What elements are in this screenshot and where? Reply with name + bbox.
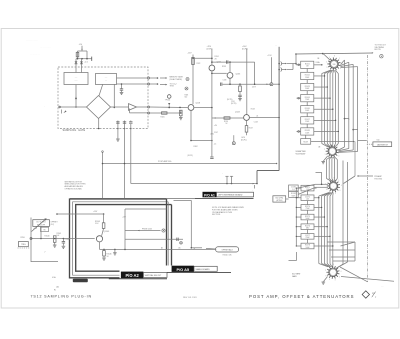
svg-text:1-3: 1-3 bbox=[292, 189, 294, 191]
svg-text:TRIG SIG: TRIG SIG bbox=[374, 179, 382, 181]
svg-text:R122: R122 bbox=[197, 63, 201, 65]
svg-text:P/O A1: P/O A1 bbox=[204, 193, 215, 197]
svg-text:R1541: R1541 bbox=[57, 233, 62, 235]
svg-text:R6: R6 bbox=[43, 229, 45, 231]
svg-text:Q1543: Q1543 bbox=[104, 231, 110, 233]
svg-text:BD PIN: BD PIN bbox=[375, 49, 382, 51]
svg-text:SAMPLING GATE: SAMPLING GATE bbox=[63, 129, 86, 132]
svg-text:FROM 1234: FROM 1234 bbox=[142, 228, 152, 230]
svg-text:........ .....: ........ ..... bbox=[26, 38, 38, 42]
svg-text:-15: -15 bbox=[214, 144, 217, 146]
svg-text:7S12 SAMPLING PLUG-IN: 7S12 SAMPLING PLUG-IN bbox=[31, 295, 92, 299]
svg-text:LEFT INTERFACE BOARD: LEFT INTERFACE BOARD bbox=[218, 194, 243, 197]
svg-text:A1: A1 bbox=[57, 285, 59, 288]
svg-text:R250: R250 bbox=[21, 237, 25, 239]
svg-text:POST AMP SIG: POST AMP SIG bbox=[158, 160, 172, 163]
svg-text:X10 CTRL: X10 CTRL bbox=[275, 198, 283, 200]
svg-text:0: 0 bbox=[338, 155, 339, 157]
svg-text:.01: .01 bbox=[256, 115, 258, 117]
svg-text:R147: R147 bbox=[249, 127, 253, 129]
svg-text:TRIG: TRIG bbox=[170, 86, 175, 88]
svg-text:CAM SWITCH: CAM SWITCH bbox=[377, 143, 389, 146]
svg-text:REV JUL 1981: REV JUL 1981 bbox=[183, 297, 198, 299]
svg-text:510: 510 bbox=[185, 97, 188, 99]
svg-text:2: 2 bbox=[324, 149, 325, 151]
svg-text:R1582: R1582 bbox=[291, 193, 296, 195]
svg-text:R133: R133 bbox=[222, 66, 226, 68]
svg-text:OFFSET ADJ: OFFSET ADJ bbox=[222, 249, 233, 252]
svg-text:S10 ATTEN: S10 ATTEN bbox=[296, 150, 306, 153]
svg-text:C1582: C1582 bbox=[291, 187, 296, 189]
svg-text:C147: C147 bbox=[214, 132, 218, 134]
svg-text:SECTION.: SECTION. bbox=[212, 214, 221, 216]
svg-text:(DCPL): (DCPL) bbox=[241, 140, 247, 142]
svg-text:R1540: R1540 bbox=[45, 236, 50, 238]
svg-text:Q143: Q143 bbox=[235, 112, 240, 114]
svg-text:+4.6: +4.6 bbox=[84, 61, 88, 63]
svg-text:Q133: Q133 bbox=[236, 73, 241, 75]
svg-text:Q118: Q118 bbox=[196, 103, 200, 105]
svg-text:(DCPL): (DCPL) bbox=[231, 103, 237, 105]
svg-text:1M2: 1M2 bbox=[306, 228, 309, 230]
svg-text:3: 3 bbox=[335, 280, 336, 282]
svg-text:(DUAL TRACE): (DUAL TRACE) bbox=[170, 78, 183, 81]
svg-text:... .... ....: ... .... .... bbox=[40, 45, 51, 49]
svg-text:R136: R136 bbox=[224, 121, 228, 123]
svg-text:P/O A5: P/O A5 bbox=[176, 267, 189, 272]
svg-text:R1019: R1019 bbox=[303, 142, 308, 144]
svg-text:.. ...... ..: .. ...... .. bbox=[30, 52, 40, 56]
svg-text:VOLTS/DIV: VOLTS/DIV bbox=[296, 153, 306, 155]
svg-text:.001: .001 bbox=[306, 199, 309, 201]
svg-text:2: 2 bbox=[326, 62, 327, 64]
svg-text:C1541: C1541 bbox=[65, 239, 70, 241]
svg-text:S10: S10 bbox=[333, 64, 336, 66]
svg-text:(DCPL): (DCPL) bbox=[188, 155, 194, 157]
svg-text:SMALL BOARD: SMALL BOARD bbox=[196, 268, 211, 271]
svg-text:R162: R162 bbox=[194, 146, 198, 148]
svg-text:(DC): (DC) bbox=[51, 224, 55, 226]
svg-text:TP104: TP104 bbox=[165, 100, 170, 102]
svg-text:4: 4 bbox=[341, 185, 342, 187]
svg-text:R1560 10K: R1560 10K bbox=[223, 254, 233, 256]
svg-text:VERTICAL SIG OUT: VERTICAL SIG OUT bbox=[145, 274, 162, 277]
svg-text:(DCPL): (DCPL) bbox=[227, 99, 233, 101]
svg-text:TRIG: TRIG bbox=[21, 244, 26, 246]
svg-text:OF PARTS OUTLINED: OF PARTS OUTLINED bbox=[65, 188, 83, 191]
svg-text:R143: R143 bbox=[251, 108, 255, 110]
svg-text:R118: R118 bbox=[185, 95, 189, 97]
svg-text:9: 9 bbox=[326, 189, 327, 191]
svg-text:1: 1 bbox=[337, 145, 338, 147]
svg-text:P/O A2: P/O A2 bbox=[125, 273, 139, 278]
svg-text:.7: .7 bbox=[44, 252, 45, 254]
svg-text:R105: R105 bbox=[161, 116, 165, 118]
svg-text:......: ...... bbox=[75, 80, 78, 82]
svg-text:8: 8 bbox=[334, 56, 335, 58]
svg-text:2: 2 bbox=[325, 270, 326, 272]
svg-text:C133: C133 bbox=[223, 79, 227, 81]
svg-text:GAIN: GAIN bbox=[292, 275, 297, 278]
svg-text:C143: C143 bbox=[254, 122, 258, 124]
svg-text:S10: S10 bbox=[377, 139, 380, 141]
svg-text:POST AMP, OFFSET & ATTENUATORS: POST AMP, OFFSET & ATTENUATORS bbox=[249, 294, 354, 299]
svg-text:8: 8 bbox=[333, 264, 334, 266]
